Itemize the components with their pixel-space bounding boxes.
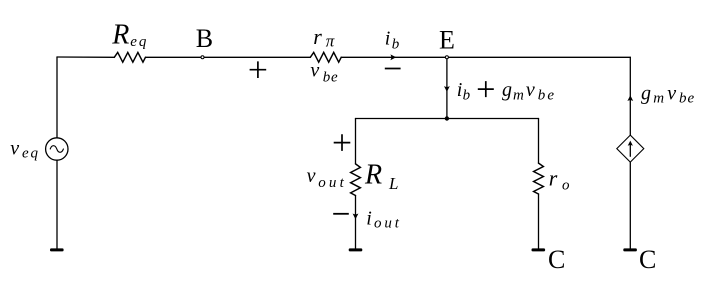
svg-text:vbe: vbe (310, 60, 338, 86)
ground left (50, 248, 64, 251)
node E open circle (445, 56, 448, 59)
label minus sign of v_out (drawn) (333, 213, 349, 215)
resistor R_L (351, 164, 361, 196)
wire B segment (145, 56, 310, 58)
current source arrow shaft (629, 145, 631, 157)
svg-text:ro: ro (549, 165, 570, 193)
svg-text:iout: iout (366, 207, 402, 231)
label plus sign of v_out (drawn) (334, 134, 351, 151)
svg-text:B: B (196, 24, 213, 53)
wire ro branch lower (538, 194, 540, 249)
current source diamond (617, 135, 644, 162)
svg-text:gmvbe: gmvbe (641, 82, 695, 106)
resistor r_o (534, 163, 544, 194)
wire ro branch upper (538, 119, 540, 164)
node B open circle (201, 56, 204, 59)
junction dot (445, 116, 449, 120)
resistor R_eq (114, 52, 145, 62)
svg-text:Req: Req (111, 20, 148, 51)
label plus sign of v_be (drawn) (250, 61, 267, 78)
wire left vertical lower (56, 160, 58, 248)
arrow down on E vertical (444, 86, 450, 92)
ground under RL (349, 248, 363, 251)
svg-text:C: C (639, 245, 656, 274)
svg-text:RL: RL (364, 160, 398, 194)
wire right branch upper (629, 57, 631, 135)
arrow i_b on top wire (390, 54, 396, 60)
ground under diamond (623, 248, 637, 251)
wire RL branch upper (355, 119, 357, 164)
svg-text:rπ: rπ (313, 24, 335, 51)
svg-text:E: E (439, 26, 455, 55)
wire RL branch lower (355, 196, 357, 249)
svg-text:vout: vout (307, 165, 347, 191)
voltage source v_eq circle (46, 138, 68, 160)
svg-text:ib: ib (385, 27, 400, 52)
sine symbol (50, 146, 63, 153)
wire right branch lower (629, 162, 631, 249)
wire top-left horizontal (57, 56, 114, 58)
label plus sign inside i_b+gmvbe (drawn) (478, 81, 494, 97)
arrow up on right branch (627, 95, 633, 101)
arrow down on RL branch (353, 214, 359, 220)
svg-text:ibgmvbe: ibgmvbe (457, 79, 556, 103)
svg-text:C: C (548, 245, 565, 274)
ground under ro (532, 248, 546, 251)
resistor r_pi (310, 52, 341, 62)
wire left vertical upper (56, 57, 58, 138)
wire r_pi to corner right (341, 56, 630, 58)
wire E vertical (446, 57, 448, 118)
wire lower horizontal (356, 118, 539, 120)
arrow inside diamond (628, 141, 633, 146)
svg-text:veq: veq (10, 138, 39, 162)
label minus sign of v_be (drawn) (385, 68, 401, 70)
